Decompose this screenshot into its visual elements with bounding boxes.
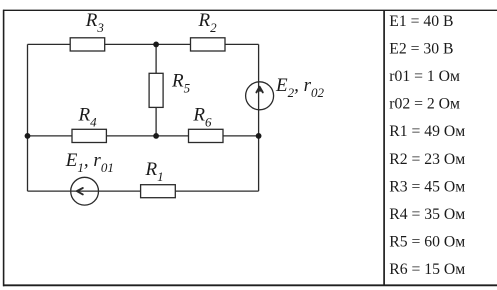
svg-text:R2 = 23 Ом: R2 = 23 Ом (389, 151, 465, 168)
source E2 circle (246, 82, 274, 110)
svg-text:R1 = 49 Ом: R1 = 49 Ом (389, 123, 465, 140)
node middle center (153, 133, 159, 139)
svg-text:R6 = 15 Ом: R6 = 15 Ом (389, 261, 465, 278)
outer frame top (3, 9, 497, 11)
source E2 arrow (256, 87, 262, 93)
resistor R4 (72, 129, 106, 142)
resistor R6 (189, 129, 224, 142)
svg-text:E2 = 30 В: E2 = 30 В (389, 41, 453, 58)
outer frame left (3, 10, 5, 287)
svg-text:R4 = 35 Ом: R4 = 35 Ом (389, 206, 465, 223)
svg-text:R5 = 60 Ом: R5 = 60 Ом (389, 234, 465, 251)
source E1 circle (71, 177, 99, 205)
svg-text:E1 = 40 В: E1 = 40 В (389, 13, 453, 30)
wire top (28, 43, 259, 45)
resistor R2 (191, 38, 226, 51)
outer frame bottom (3, 284, 497, 286)
svg-text:R3 = 45 Ом: R3 = 45 Ом (389, 178, 465, 195)
wire bottom (28, 190, 259, 192)
wire middle (28, 135, 259, 137)
wire R5 branch (155, 44, 157, 135)
resistor R3 (70, 38, 105, 51)
node middle right (256, 133, 262, 139)
resistor R5 (149, 73, 163, 107)
node top center (153, 42, 159, 48)
svg-text:r01 = 1 Ом: r01 = 1 Ом (389, 68, 460, 85)
wire right (258, 44, 260, 191)
wire left (27, 44, 29, 191)
node middle left (25, 133, 31, 139)
resistor R1 (141, 185, 176, 198)
source E1 arrow (77, 188, 83, 194)
table separator line (383, 10, 385, 285)
svg-text:r02 = 2 Ом: r02 = 2 Ом (389, 96, 460, 113)
